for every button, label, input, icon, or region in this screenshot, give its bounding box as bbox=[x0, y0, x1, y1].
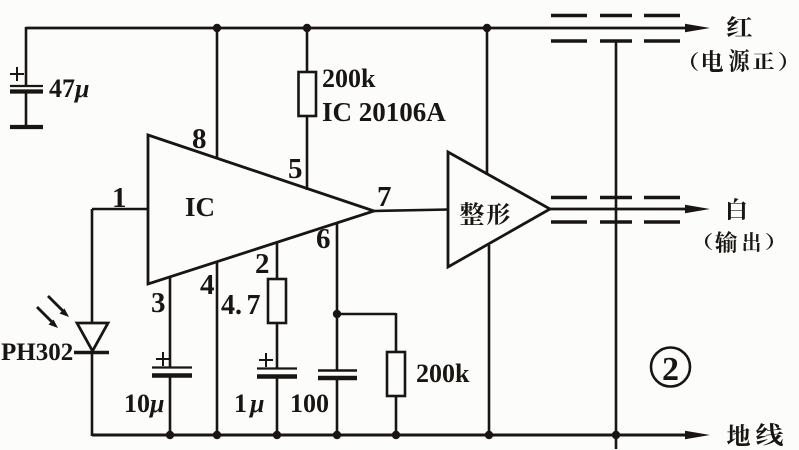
capacitor C2 10u electrolytic bbox=[152, 368, 192, 376]
arrow: white output lead arrowhead bbox=[685, 205, 710, 214]
svg-text:2: 2 bbox=[662, 351, 679, 388]
svg-text:1: 1 bbox=[112, 182, 127, 214]
wire: R2 bottom to C3 bbox=[276, 323, 279, 368]
resistor R2 4.7 bbox=[268, 279, 286, 323]
wire: V+ top rail bbox=[26, 27, 690, 30]
svg-text:PH302: PH302 bbox=[1, 339, 73, 366]
pin 6 wire from U1 bottom edge bbox=[336, 222, 339, 370]
capacitor C1 47u, electrolytic, from V+ rail bbox=[10, 27, 43, 127]
svg-text:200k: 200k bbox=[322, 64, 376, 93]
wire: C4 to ground rail bbox=[336, 379, 339, 436]
cable sheath dashes below white lead bbox=[551, 220, 680, 223]
node: ground junction C3 bbox=[273, 431, 281, 439]
svg-text:10μ: 10μ bbox=[124, 389, 164, 418]
arrow: ground lead arrowhead bbox=[685, 431, 710, 440]
net label: ground wire bbox=[727, 423, 783, 446]
svg-text:6: 6 bbox=[316, 223, 331, 255]
wire: pin1 down the left side bbox=[91, 209, 94, 323]
wire: R3 bottom to ground rail bbox=[395, 396, 398, 436]
polarity + mark of C2 bbox=[156, 352, 170, 366]
light arrow 2 into D1 bbox=[37, 307, 58, 328]
polarity + mark of C3 bbox=[259, 353, 273, 367]
photodiode D1 PH302 bbox=[77, 323, 108, 351]
wire: R1 bottom to IC pin 5 bbox=[306, 116, 309, 190]
wire: U2 output to white lead bbox=[550, 208, 690, 211]
wire: cable shield drain vertical to ground bbox=[615, 41, 618, 449]
wire: V+ rail to R1 top bbox=[306, 28, 309, 73]
svg-text:IC 20106A: IC 20106A bbox=[322, 97, 446, 127]
svg-text:3: 3 bbox=[151, 287, 166, 319]
svg-text:5: 5 bbox=[288, 153, 303, 185]
svg-text:8: 8 bbox=[192, 123, 207, 155]
node: ground junction pin4 bbox=[213, 431, 221, 439]
amplifier U2 wave shaper triangle bbox=[448, 152, 550, 267]
pin 3 wire from U1 bottom edge bbox=[169, 276, 172, 367]
svg-text:IC: IC bbox=[185, 192, 215, 222]
arrow: red supply lead arrowhead bbox=[685, 24, 710, 33]
node: ground junction U2 bbox=[485, 431, 493, 439]
net label: white (output wire) bbox=[728, 198, 746, 220]
svg-text:1μ: 1μ bbox=[234, 389, 264, 418]
svg-text:100: 100 bbox=[290, 389, 329, 418]
op-amp U1 main IC triangle bbox=[148, 135, 374, 284]
svg-text:200k: 200k bbox=[416, 359, 470, 388]
polarity + mark of C1 bbox=[10, 67, 24, 81]
wire: D1 cathode to ground rail bbox=[91, 353, 94, 436]
node: ground junction shield bbox=[612, 431, 620, 439]
node: ground junction C4 bbox=[333, 431, 341, 439]
pin 1 wire into U1 left edge bbox=[92, 208, 148, 211]
cable sheath dashes below red lead bbox=[551, 39, 680, 42]
pin 4 wire from U1 bottom edge to ground bbox=[216, 261, 219, 436]
resistor R3 200k bbox=[387, 352, 405, 396]
wire: junction to R3 top bbox=[337, 313, 396, 316]
label "zheng xing" (shaping) inside U2 bbox=[460, 202, 484, 225]
light arrow 1 into D1 bbox=[48, 296, 69, 317]
net label: red (supply) bbox=[727, 16, 752, 37]
wire: C2 to ground rail bbox=[169, 377, 172, 436]
capacitor C3 1u electrolytic bbox=[257, 369, 297, 377]
svg-text:7: 7 bbox=[377, 181, 392, 213]
net label: (power positive) bbox=[691, 49, 786, 72]
wire: ground bottom rail bbox=[92, 434, 690, 437]
pin 8 wire from top rail to U1 top edge bbox=[216, 28, 219, 159]
cathode bar of D1 bbox=[74, 351, 109, 354]
node: top rail junction to 200k resistor bbox=[303, 24, 311, 32]
capacitor C4 100 bbox=[318, 371, 357, 379]
svg-text:4: 4 bbox=[200, 269, 215, 301]
cable sheath dashes above white lead bbox=[551, 196, 680, 199]
node: top rail junction to shaper V+ bbox=[483, 24, 491, 32]
net label: (output) bbox=[705, 231, 773, 253]
svg-text:47μ: 47μ bbox=[49, 74, 89, 103]
svg-text:4.7: 4.7 bbox=[221, 290, 261, 321]
cable sheath dashes above red lead bbox=[551, 14, 680, 17]
pin 2 wire from U1 bottom edge bbox=[276, 242, 279, 279]
node: pin6 junction to R3 bbox=[333, 310, 341, 318]
wire: C3 to ground rail bbox=[276, 378, 279, 436]
node: ground junction R3 bbox=[392, 431, 400, 439]
pin 7 wire from U1 apex to shaper U2 bbox=[374, 210, 449, 212]
figure number 2 circled bbox=[651, 348, 690, 389]
resistor R1 200k bbox=[299, 72, 317, 116]
svg-text:2: 2 bbox=[255, 248, 270, 280]
node: top rail junction to pin 8 bbox=[213, 24, 221, 32]
node: ground junction C2 bbox=[166, 431, 174, 439]
wire: V+ rail to U2 top edge bbox=[486, 28, 489, 175]
wire: U2 bottom edge to ground rail bbox=[488, 245, 491, 436]
